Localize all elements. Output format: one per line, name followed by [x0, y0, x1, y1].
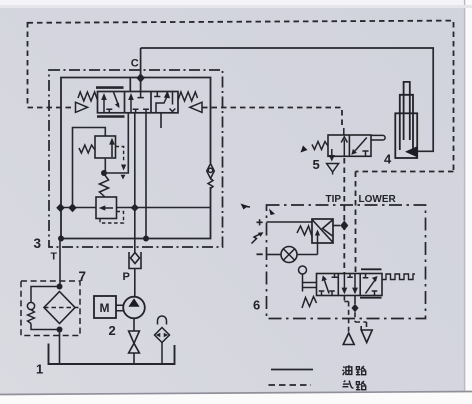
wire: left dashed edge: [27, 22, 29, 108]
wire: pump to shut-off valve: [133, 318, 135, 331]
svg-text:T: T: [51, 251, 58, 263]
valve 6 return spring: [302, 297, 317, 309]
node C junction diamond: [136, 73, 144, 83]
main valve mounting bar bottom-left: [97, 115, 125, 118]
reducing valve V2 body: [96, 197, 117, 219]
svg-text:4: 4: [384, 152, 392, 167]
valve 5 left box flow arrow: [343, 128, 346, 156]
pilot relief valve V1 body: [95, 136, 116, 158]
wire: C line from valve through diamond to top run: [140, 48, 142, 92]
cylinder inlet arrow: [405, 146, 417, 157]
main valve left box internals: [104, 92, 119, 113]
stub port below main valve right box: [160, 113, 162, 128]
wire: oil line C to cylinder: [141, 48, 434, 151]
relief valve V1 internal arrow: [111, 142, 113, 158]
exhaust triangle down: [361, 326, 372, 343]
wire: top dashed edge: [28, 21, 454, 23]
valve 6 left section internals: [319, 274, 338, 296]
filter element dashed mesh line: [44, 307, 80, 309]
bypass check ball: [27, 302, 34, 309]
svg-text:P: P: [123, 271, 130, 283]
valve 5 right box blocked port: [362, 151, 368, 156]
svg-text:TIP: TIP: [326, 194, 342, 205]
shut-off valve (two triangles): [129, 331, 140, 353]
filter bypass wire: [31, 287, 60, 330]
bypass spring: [28, 310, 35, 324]
main valve centre box internals: [131, 92, 149, 113]
wire: node to valve port: [104, 113, 128, 173]
valve 5 plugged outlet capsule: [371, 135, 385, 140]
main valve left return spring: [78, 92, 98, 101]
solenoid diagonal: [312, 220, 333, 243]
reducing valve V2 pilot dashed loop: [100, 212, 124, 224]
wire: valve top-left port to block top edge: [129, 78, 131, 92]
junction diamond on TIP line: [340, 221, 348, 231]
svg-text:7: 7: [79, 269, 87, 284]
main valve right pneumatic pilot: [190, 102, 202, 112]
motor-pump coupling: [116, 305, 124, 311]
wire: filter to tank: [59, 330, 61, 365]
pointer mark inside box 6 corner: [269, 209, 275, 216]
pilot-operated valve 6 body: [317, 274, 383, 296]
air breather cap: [158, 316, 167, 325]
valve 6 right section internals: [363, 274, 378, 296]
wire: pilot line from main valve right pilot to valve 5: [202, 108, 342, 128]
relief valve V1 pilot dashed line: [116, 147, 124, 162]
electric lightning arrow: [252, 234, 262, 244]
node junction below relief valve: [101, 170, 107, 176]
main valve right box internals: [154, 92, 175, 113]
wire: LOWER dashed vertical: [355, 172, 357, 274]
junction dot filter top: [57, 284, 63, 290]
solenoid pilot box: [312, 219, 333, 243]
air breather diamond: [155, 328, 170, 343]
wire: main pressure line through block: [61, 207, 211, 209]
wire: plus wire to solenoid: [267, 221, 313, 223]
wire: P line valve to pump: [134, 113, 136, 252]
junction dot left edge: [56, 203, 65, 212]
valve 6 centre section port arrows: [344, 274, 355, 289]
exhaust triangle up: [343, 333, 354, 345]
push button stem and rod: [303, 274, 317, 292]
label minus: [257, 253, 263, 255]
junction dot block corner: [58, 236, 64, 242]
cylinder second stage: [400, 95, 413, 150]
check valve on block right edge: [207, 164, 215, 189]
main directional valve DV1 body (3-position, 6-port): [98, 92, 179, 113]
tank line 1: [49, 344, 175, 365]
legend solid oil line: [271, 369, 313, 371]
control block 3 solid boundary: [61, 78, 211, 239]
valve 6 push button: [299, 266, 307, 274]
wire: minus wire to lamp: [267, 254, 282, 256]
valve 6 detent comb: [382, 274, 415, 280]
junction dot filter bottom: [57, 327, 63, 333]
wire: dashed drop to exhausts: [344, 296, 366, 332]
filter 7 dashed enclosure: [21, 281, 80, 336]
svg-text:LOWER: LOWER: [359, 194, 397, 205]
svg-text:C: C: [131, 57, 139, 69]
telescopic cylinder 4 outer barrel: [395, 82, 417, 158]
wire: solenoid to TIP line junction: [333, 225, 340, 227]
relief valve V1 spring: [79, 145, 95, 153]
valve 6 underline bar: [360, 297, 382, 299]
legend: [269, 370, 314, 386]
main valve left pneumatic pilot: [76, 102, 88, 112]
svg-text:M: M: [100, 301, 110, 315]
wire: solenoid bottom to lamp: [297, 243, 318, 255]
wire: TIP dashed vertical: [343, 158, 345, 273]
relief valve top loop wire: [73, 128, 106, 208]
valve 5 exhaust path arrow: [331, 149, 333, 155]
svg-text:1: 1: [36, 362, 43, 377]
main valve mounting bar top-left: [96, 86, 124, 89]
legend dashed air line: [269, 384, 312, 386]
wire: return port to block bottom edge: [145, 113, 147, 239]
wire: breather stem to tank: [161, 343, 163, 365]
solenoid inner wedge: [323, 220, 333, 236]
svg-text:5: 5: [313, 157, 320, 172]
filter element diamond: [44, 292, 75, 324]
valve 5 spring: [312, 142, 328, 150]
junction diamond below valve 6: [351, 304, 358, 313]
legend text oil (drawn glyphs): [342, 365, 351, 375]
indicator lamp: [281, 247, 297, 263]
pump 2 circle: [123, 297, 145, 319]
junction dot relief branch: [68, 203, 77, 212]
cylinder rod stage: [404, 82, 410, 140]
wire: LOWER port below valve to junction: [354, 296, 356, 305]
pointer mark outside box 6: [241, 204, 249, 210]
svg-text:2: 2: [109, 323, 116, 338]
pump output triangle: [128, 298, 139, 307]
wire: T return line down to filter: [59, 239, 61, 287]
pneumatic supply dashed loop (outer): [28, 21, 454, 273]
valve 5 manual arrow flag: [301, 146, 308, 153]
wire: check valve to pump: [134, 269, 136, 298]
wire: LOWER dashed top edge: [356, 171, 454, 173]
valve 6 overline bar: [361, 268, 382, 270]
electric motor M box: [94, 296, 116, 318]
wire: relief valve bottom to node: [104, 158, 106, 171]
reducing valve V2 internal arrow: [103, 207, 114, 209]
breather diamond ticks: [156, 333, 161, 337]
main valve right return spring: [178, 92, 198, 101]
solenoid spring: [297, 226, 312, 237]
svg-text:3: 3: [34, 236, 42, 251]
inline check valve at P: [129, 252, 141, 269]
junction dot P line: [131, 204, 139, 212]
spring between node and reducing valve: [99, 174, 108, 197]
valve 5 right box diagonal: [354, 138, 367, 153]
control block 3 chain-line boundary: [49, 70, 223, 247]
label plus: [257, 219, 263, 225]
svg-text:6: 6: [253, 298, 260, 313]
pilot valve 5 body: [328, 135, 371, 156]
solenoid internal arrow: [317, 233, 319, 243]
junction dot return port: [143, 236, 149, 242]
operator box 6 chain boundary: [267, 205, 426, 319]
wire: right dashed edge: [453, 22, 455, 172]
valve 5 exhaust triangle: [327, 164, 339, 175]
wire: pilot line to main valve left pilot: [28, 107, 76, 109]
wire: shut-off valve to tank: [133, 353, 135, 364]
legend text air (drawn glyphs): [343, 381, 354, 388]
